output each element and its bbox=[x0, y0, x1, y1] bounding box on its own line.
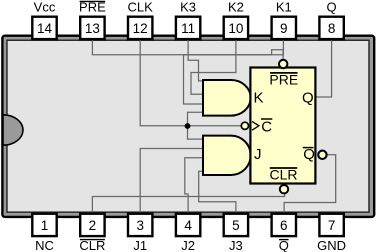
junction dot on CLK line bbox=[185, 123, 191, 129]
svg-text:NC: NC bbox=[35, 238, 54, 252]
pin 14 box bbox=[32, 17, 56, 39]
svg-text:Q: Q bbox=[327, 0, 337, 15]
svg-text:1: 1 bbox=[41, 218, 49, 233]
wire CLR: pin2 to CLR bubble bbox=[92, 194, 284, 213]
wire K1: pin9 to AND gate G1 input 3 bbox=[184, 40, 284, 104]
pin 5 box bbox=[224, 214, 248, 236]
svg-text:5: 5 bbox=[232, 218, 240, 233]
svg-text:K1: K1 bbox=[276, 0, 292, 15]
wire CLK: pin12 to C input bubble bbox=[140, 40, 241, 126]
svg-text:J1: J1 bbox=[133, 238, 147, 252]
svg-text:Q: Q bbox=[303, 146, 315, 163]
svg-text:K: K bbox=[254, 90, 264, 107]
pin 1 box bbox=[32, 214, 56, 236]
svg-text:2: 2 bbox=[89, 218, 97, 233]
wire PRE: pin13 to PRE bubble bbox=[92, 40, 283, 59]
svg-text:8: 8 bbox=[328, 21, 336, 36]
wire Qbar: flip-flop Qbar bubble to pin6 bbox=[284, 155, 336, 213]
svg-text:J: J bbox=[254, 146, 262, 163]
pin 11 box bbox=[176, 17, 200, 39]
svg-text:K3: K3 bbox=[180, 0, 196, 15]
pin 13 box bbox=[80, 17, 104, 39]
pin 7 box bbox=[319, 214, 343, 236]
svg-text:Q: Q bbox=[302, 90, 314, 107]
svg-text:7: 7 bbox=[328, 218, 336, 233]
flip-flop U2 body bbox=[250, 68, 315, 184]
svg-text:14: 14 bbox=[37, 21, 53, 36]
svg-text:CLK: CLK bbox=[128, 0, 154, 15]
svg-text:9: 9 bbox=[280, 21, 288, 36]
pin 10 box bbox=[224, 17, 248, 39]
pin 4 box bbox=[176, 214, 200, 236]
IC body U1 (14-pin DIP outline) bbox=[2, 36, 374, 217]
wire J3: pin5 to AND gate G2 input 4 bbox=[199, 171, 236, 212]
pin 3 box bbox=[128, 214, 152, 236]
wire J1: pin3 to AND gate G2 input 2 bbox=[140, 149, 203, 213]
svg-text:K2: K2 bbox=[228, 0, 244, 15]
svg-text:J2: J2 bbox=[181, 238, 195, 252]
svg-text:12: 12 bbox=[133, 21, 148, 36]
svg-text:J3: J3 bbox=[229, 238, 243, 252]
svg-text:GND: GND bbox=[317, 238, 346, 252]
pin 6 box bbox=[272, 214, 296, 236]
svg-text:3: 3 bbox=[136, 218, 144, 233]
pin 2 box bbox=[80, 214, 104, 236]
wire J2: pin4 to AND gate G2 input 3 bbox=[185, 158, 204, 213]
pin 12 box bbox=[128, 17, 152, 39]
svg-text:Vcc: Vcc bbox=[34, 0, 56, 15]
Qbar output bubble bbox=[318, 151, 326, 159]
svg-text:6: 6 bbox=[280, 218, 288, 233]
svg-text:CLR: CLR bbox=[269, 167, 297, 183]
wire CLK branch to both AND gates bbox=[188, 112, 204, 139]
svg-text:13: 13 bbox=[85, 21, 100, 36]
svg-text:PRE: PRE bbox=[79, 0, 106, 15]
wire Q: pin8 to flip-flop Q output bbox=[317, 40, 332, 97]
wire K2: pin10 to AND gate G1 input 2 bbox=[191, 40, 236, 94]
svg-text:4: 4 bbox=[184, 218, 192, 233]
clock edge triangle bbox=[252, 121, 259, 130]
pin 9 box bbox=[272, 17, 296, 39]
AND gate G1 (K input gate) bbox=[203, 80, 251, 116]
pin-1 index notch bbox=[3, 115, 23, 145]
wire K3: pin11 to AND gate G1 input 1 bbox=[188, 40, 203, 81]
svg-text:PRE: PRE bbox=[269, 72, 298, 88]
pin 8 box bbox=[319, 17, 343, 39]
svg-text:10: 10 bbox=[228, 21, 243, 36]
C clock input bubble bbox=[241, 122, 248, 129]
AND gate G2 (J input gate) bbox=[203, 136, 251, 175]
CLR input bubble bbox=[280, 185, 288, 193]
IC body inner face bbox=[7, 40, 369, 212]
svg-text:C: C bbox=[261, 119, 272, 136]
PRE input bubble bbox=[279, 60, 287, 68]
svg-text:11: 11 bbox=[181, 21, 195, 36]
